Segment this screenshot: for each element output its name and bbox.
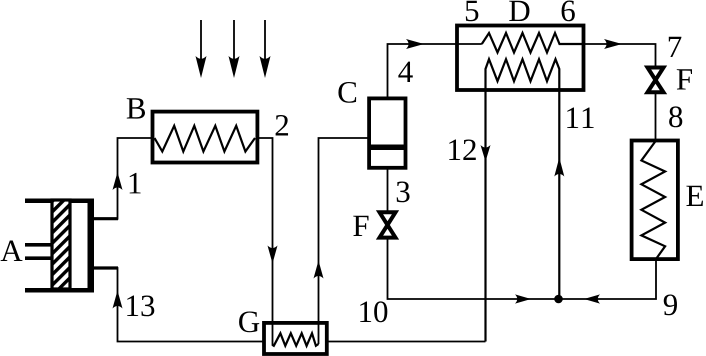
- D bottom zigzag with wires 12 and 11: [486, 59, 560, 341]
- label 5: [466, 1, 478, 22]
- separator C divider: [371, 145, 405, 151]
- wire 8: valve to evaporator E: [655, 94, 657, 141]
- collector B zigzag: [155, 126, 256, 152]
- label 7: [669, 37, 682, 57]
- throttle valve F (top right): [648, 68, 664, 93]
- wire 3: C bottom to valve F bottom: [387, 168, 389, 211]
- condenser-exchanger D box: [457, 26, 584, 91]
- label 10: [360, 301, 387, 322]
- label 6: [562, 0, 575, 21]
- flow arrow right on wire 7: [604, 39, 622, 49]
- label 3: [397, 181, 410, 202]
- solar arrow 1: [196, 20, 207, 78]
- label C: [338, 82, 356, 103]
- label E: [686, 186, 702, 206]
- separator C box: [369, 98, 405, 167]
- wire 4: C top up and right to D: [388, 44, 482, 98]
- label F bottom: [353, 216, 368, 236]
- solar arrow 2: [229, 20, 240, 78]
- flow arrow up on G-C wire: [314, 261, 324, 279]
- flow arrow down on wire 2: [268, 246, 278, 264]
- label 9: [664, 294, 677, 315]
- wire 10: valve down and right to junction: [388, 240, 559, 300]
- wire 13: A bottom port down to bottom run: [94, 268, 264, 342]
- engine A piston (hatched): [52, 200, 70, 289]
- wire from G up to separator C left: [319, 138, 370, 344]
- flow arrow up on wire 11: [554, 158, 564, 177]
- label D: [509, 1, 529, 21]
- label G: [239, 311, 259, 332]
- wire 2: B right down to regenerator G: [257, 138, 272, 346]
- wire 9: E bottom to junction: [558, 259, 656, 299]
- wire from G right to wire 12 bottom corner: [327, 341, 486, 343]
- label 2: [276, 115, 288, 136]
- regenerator G box: [264, 323, 327, 354]
- solar collector B box: [153, 112, 258, 163]
- label 4: [398, 62, 412, 82]
- engine A cylinder walls: [25, 199, 94, 293]
- D top zigzag: [482, 33, 584, 53]
- label 1: [130, 173, 141, 193]
- throttle valve F (bottom): [380, 212, 396, 237]
- flow arrow left on wire 9: [584, 294, 600, 303]
- junction node dot: [554, 295, 563, 304]
- engine A rod lines: [25, 243, 52, 260]
- G zigzag: [273, 333, 319, 346]
- label 8: [669, 106, 682, 127]
- solar arrow 3: [260, 20, 271, 78]
- label 12: [449, 139, 476, 160]
- wire 1: A top port to B left: [93, 138, 153, 219]
- label B: [127, 98, 145, 118]
- evaporator E box: [632, 141, 678, 260]
- label 11: [567, 108, 593, 128]
- label F top: [677, 69, 692, 89]
- wire 7: D right to valve F top: [584, 44, 656, 66]
- flow arrow right on wire 4: [406, 39, 424, 49]
- flow arrow down on wire 12: [481, 145, 491, 162]
- label A: [1, 241, 23, 261]
- E vertical zigzag: [641, 141, 665, 260]
- flow arrow right on wire 10: [515, 294, 531, 303]
- flow arrow up on wire 13: [113, 291, 123, 309]
- label 13: [127, 295, 154, 316]
- flow arrow up on wire 1: [113, 172, 123, 190]
